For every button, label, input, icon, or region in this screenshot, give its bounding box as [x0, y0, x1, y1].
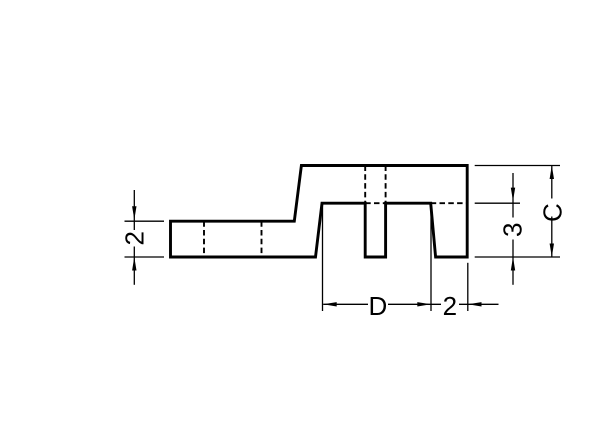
dim C extension bottom	[475, 256, 560, 258]
dim C extension top	[475, 165, 560, 167]
hidden line bar left	[203, 221, 205, 257]
dim 3 extension top	[475, 202, 520, 204]
dim 2 left arrow bottom	[132, 257, 136, 271]
dim 3 arrow bottom	[511, 257, 515, 271]
dim 2 left line	[133, 190, 135, 285]
dim 2 left extension top	[125, 220, 165, 222]
hidden line slot left	[364, 166, 366, 204]
dim 2 left extension bottom	[125, 256, 165, 258]
dim D and 2 line	[323, 303, 498, 305]
svg-text:2: 2	[443, 291, 457, 321]
dim C label	[544, 199, 559, 217]
svg-text:3: 3	[498, 222, 528, 236]
svg-text:2: 2	[119, 231, 149, 245]
dim D label	[368, 296, 388, 313]
hidden line bar right	[261, 221, 263, 257]
dim C arrow bottom	[550, 244, 554, 258]
hidden line behind middle leg	[365, 202, 385, 204]
dim C line	[551, 166, 553, 258]
dim 2 bottom extension right	[467, 263, 469, 311]
dim C arrow top	[550, 166, 554, 180]
dim 3 label	[505, 218, 520, 240]
dim D arrow left	[323, 302, 337, 306]
dim D extension left	[322, 204, 324, 312]
dim 2 left label	[127, 230, 142, 247]
svg-text:D: D	[369, 291, 388, 321]
hidden line behind right leg	[431, 202, 468, 204]
dim 3 arrow top	[511, 188, 515, 201]
dim 2 left arrow top	[132, 206, 136, 220]
hidden line slot right	[385, 166, 387, 204]
dim D arrow right	[417, 302, 431, 306]
dim 2 bottom label	[441, 296, 459, 313]
dim 2 bottom arrow	[468, 302, 482, 306]
part outline	[171, 166, 468, 258]
dim D extension right	[430, 204, 432, 312]
svg-text:C: C	[537, 203, 567, 222]
dim 3 line	[512, 173, 514, 285]
